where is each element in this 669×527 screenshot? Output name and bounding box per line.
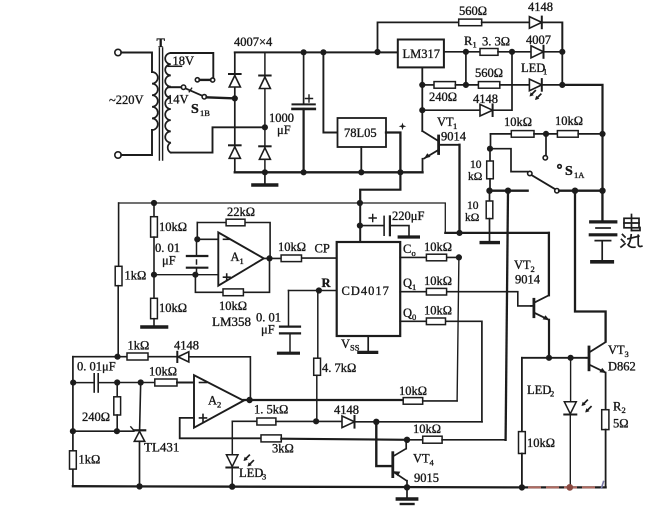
node — [137, 484, 142, 489]
ground Vss — [367, 336, 369, 351]
svg-text:T: T — [157, 36, 166, 50]
label S1A — [558, 165, 562, 169]
wire bridge left column — [234, 52, 236, 171]
star marker — [399, 123, 407, 131]
wire to A2 out — [189, 357, 251, 399]
LED3 — [231, 421, 233, 454]
svg-text:2: 2 — [550, 389, 554, 399]
svg-text:LED: LED — [521, 61, 545, 75]
wire 3k to VT4 node — [281, 439, 407, 440]
wire — [498, 51, 531, 53]
svg-text:Q: Q — [403, 306, 412, 320]
node — [230, 484, 235, 489]
wire — [121, 130, 152, 155]
resistor 1k — [127, 353, 148, 360]
wire — [482, 21, 530, 23]
node — [567, 485, 572, 490]
node — [560, 83, 565, 88]
node — [420, 108, 425, 113]
wire row1-row2 link — [465, 52, 467, 85]
wire corner left — [490, 134, 492, 149]
wire — [121, 53, 152, 73]
wire — [455, 84, 478, 86]
wire left low branch — [72, 357, 74, 487]
svg-text:560Ω: 560Ω — [475, 66, 503, 80]
svg-text:S: S — [565, 164, 573, 179]
wire far-left branch — [118, 203, 120, 266]
node VT4 collector — [405, 437, 410, 442]
node — [506, 188, 511, 193]
diode bridge D4 bottom-right — [259, 145, 270, 147]
transformer T primary winding — [152, 72, 158, 130]
wire 22k feedback loop — [197, 223, 270, 259]
svg-text:22kΩ: 22kΩ — [227, 205, 255, 219]
wire to S1A pivot — [491, 149, 528, 172]
svg-text:A: A — [231, 250, 240, 264]
svg-text:3: 3 — [625, 349, 629, 359]
node R — [317, 288, 322, 293]
resistor R2 5ohm — [602, 410, 609, 430]
svg-text:TL431: TL431 — [144, 440, 179, 455]
node A1 out — [267, 256, 272, 261]
wire VDD to CD4017 — [359, 203, 361, 242]
svg-text:1kΩ: 1kΩ — [125, 269, 147, 283]
svg-text:10: 10 — [467, 200, 479, 212]
wire 1.5k row — [232, 420, 257, 422]
svg-text:1kΩ: 1kΩ — [128, 339, 150, 353]
svg-text:D862: D862 — [608, 360, 636, 374]
wire — [500, 84, 530, 86]
svg-text:240Ω: 240Ω — [82, 410, 110, 424]
node — [560, 50, 565, 55]
svg-text:10kΩ: 10kΩ — [555, 114, 583, 128]
transistor VT3 — [588, 347, 591, 370]
node — [115, 429, 120, 434]
svg-text:R: R — [322, 276, 332, 290]
diode bridge D2 top-right — [259, 75, 270, 77]
node — [301, 50, 306, 55]
resistor 1k vertical left — [115, 266, 122, 285]
wire to 78L05 — [323, 52, 337, 132]
node — [71, 429, 76, 434]
wire VDD rail to VT2 — [445, 232, 549, 234]
node — [573, 188, 578, 193]
resistor 10k Co — [426, 254, 446, 261]
svg-text:2: 2 — [622, 405, 626, 415]
wire VT1 base down — [458, 145, 460, 233]
wire left divider — [153, 203, 155, 217]
diode 4007 — [531, 46, 544, 58]
resistor 22k — [226, 219, 245, 226]
wire 10k up to S1A row — [506, 191, 508, 440]
svg-text:C: C — [403, 242, 411, 256]
node Co — [457, 255, 462, 260]
svg-text:3. 3Ω: 3. 3Ω — [482, 35, 510, 49]
node — [510, 50, 515, 55]
op-amp A2 — [194, 375, 244, 428]
wire A1 plus row — [154, 274, 218, 276]
node — [457, 231, 462, 236]
wire — [534, 133, 557, 135]
transformer T secondary winding — [165, 53, 171, 153]
node A1 minus — [195, 237, 200, 242]
wire bottom power rail — [235, 171, 423, 173]
svg-text:Q: Q — [403, 276, 412, 290]
wire row 4148 adj — [422, 109, 480, 111]
node — [321, 50, 326, 55]
transformer T primary terminal top — [115, 49, 121, 55]
wire 1k 4148 row — [73, 356, 177, 358]
wire R row — [289, 290, 337, 292]
node — [359, 170, 364, 175]
diode 4148 A2 (points left) — [176, 352, 178, 362]
switch S1B pivot — [181, 85, 185, 89]
svg-text:3: 3 — [262, 472, 266, 482]
wire S1A upper contact — [545, 136, 547, 156]
ground VT4 — [406, 487, 408, 497]
diode 4148 top — [529, 17, 541, 29]
wire row2 — [422, 84, 434, 86]
svg-text:μF: μF — [261, 323, 275, 337]
svg-text:10kΩ: 10kΩ — [159, 220, 187, 234]
wire 14V tap — [168, 86, 181, 88]
svg-text:LED: LED — [527, 383, 551, 397]
svg-text:1B: 1B — [200, 108, 210, 118]
svg-text:VT: VT — [608, 343, 625, 357]
transformer core — [159, 48, 162, 160]
IC CD4017 — [337, 242, 401, 336]
svg-text:o: o — [412, 248, 416, 258]
svg-text:VT: VT — [413, 452, 430, 466]
wire Q0 row — [400, 321, 482, 422]
switch S1B contact — [202, 95, 206, 99]
resistor 10k vertical upper — [489, 149, 491, 161]
node bridge AC right — [263, 125, 268, 130]
svg-text:1A: 1A — [574, 170, 585, 180]
wire 78L05 output — [386, 133, 400, 173]
node — [314, 419, 319, 424]
node — [600, 132, 605, 137]
svg-text:S: S — [191, 102, 199, 117]
svg-text:10kΩ: 10kΩ — [159, 301, 187, 315]
wire VDD jog — [360, 172, 400, 203]
wire 14V to bridge — [207, 97, 235, 98]
wire 10k feedback loop — [195, 258, 269, 292]
wire 10k A2 minus row — [117, 382, 155, 384]
svg-text:9014: 9014 — [515, 273, 541, 287]
wire 78L05 gnd — [360, 147, 362, 172]
svg-text:9015: 9015 — [414, 471, 439, 485]
resistor 3k — [261, 435, 281, 442]
transformer T primary terminal bottom — [115, 152, 121, 158]
resistor 10k A2out — [403, 398, 423, 405]
svg-text:10kΩ: 10kΩ — [504, 115, 532, 129]
capacitor 0.01uF A1 — [196, 239, 198, 256]
capacitor 0.01uF R — [288, 291, 290, 327]
svg-text:kΩ: kΩ — [468, 171, 482, 183]
svg-text:220μF: 220μF — [392, 209, 424, 223]
node — [375, 50, 380, 55]
node VT4 base branch — [374, 419, 379, 424]
switch S1B 18V contact pair — [211, 78, 215, 82]
node — [115, 354, 120, 359]
node — [420, 83, 425, 88]
wire Q1 row — [400, 292, 531, 306]
resistor 10k — [557, 131, 578, 138]
node — [405, 485, 410, 490]
resistor 10k CP — [281, 255, 301, 262]
wire A1 minus — [197, 223, 218, 240]
svg-text:10kΩ: 10kΩ — [278, 240, 306, 254]
svg-text:V: V — [341, 337, 350, 351]
resistor 10k Q0 — [426, 318, 445, 325]
svg-text:14V: 14V — [167, 93, 189, 107]
resistor 560ohm top — [459, 19, 482, 26]
svg-text:4007×4: 4007×4 — [234, 35, 273, 49]
svg-text:10kΩ: 10kΩ — [527, 436, 555, 450]
svg-text:VT: VT — [514, 258, 531, 272]
svg-text:4148: 4148 — [334, 403, 359, 417]
svg-text:10kΩ: 10kΩ — [424, 274, 452, 288]
svg-text:10: 10 — [470, 159, 482, 171]
svg-text:4148: 4148 — [528, 0, 553, 14]
svg-text:10kΩ: 10kΩ — [219, 299, 247, 313]
node — [115, 380, 120, 385]
svg-text:VT: VT — [437, 115, 454, 129]
svg-text:μF: μF — [277, 123, 291, 137]
wire 240 bottom row — [73, 430, 134, 432]
diode bridge D3 bottom-left — [229, 144, 241, 146]
svg-text:1: 1 — [412, 282, 416, 292]
resistor 1.5k — [257, 418, 276, 425]
diode 4148 Q0 — [342, 416, 355, 428]
diode bridge D1 top-left — [229, 73, 241, 75]
wire top rail — [235, 51, 398, 53]
svg-text:10kΩ: 10kΩ — [149, 365, 177, 379]
svg-text:10kΩ: 10kΩ — [424, 240, 452, 254]
capacitor 1000uF — [303, 52, 305, 104]
wire S1A bottom row — [490, 189, 528, 191]
node — [193, 272, 198, 277]
wire LM317 output — [444, 51, 480, 53]
node — [71, 380, 76, 385]
LED1 — [529, 79, 541, 91]
resistor 10k VT4 — [423, 436, 442, 443]
LED2 — [570, 358, 572, 402]
svg-text:78L05: 78L05 — [344, 126, 377, 140]
ground — [481, 241, 498, 244]
svg-text:1. 5kΩ: 1. 5kΩ — [254, 403, 288, 417]
resistor 10k — [511, 131, 534, 138]
regulator 78L05 — [338, 118, 387, 147]
svg-text:CD4017: CD4017 — [342, 284, 390, 298]
wire Co row — [400, 256, 459, 258]
node — [152, 272, 157, 277]
transistor VT1 — [422, 131, 437, 141]
node — [568, 356, 573, 361]
capacitor 220uF — [360, 225, 383, 227]
resistor 1k vertical bottom — [70, 451, 77, 469]
wire secondary bottom — [171, 127, 262, 152]
ground bridge — [264, 172, 266, 183]
wire — [493, 52, 512, 110]
svg-text:kΩ: kΩ — [465, 212, 479, 224]
transistor VT4 — [376, 422, 391, 466]
node — [301, 170, 306, 175]
node — [488, 146, 493, 151]
resistor 10k A1 — [223, 289, 243, 296]
resistor R1 3.3ohm — [480, 49, 498, 56]
svg-text:4148: 4148 — [473, 92, 498, 106]
resistor 10k vertical lower — [489, 191, 491, 201]
wire VT3 base row — [522, 357, 587, 359]
wire bottom rail — [73, 486, 522, 487]
wire bridge right column — [264, 52, 266, 171]
node — [464, 50, 469, 55]
svg-text:10kΩ: 10kΩ — [424, 304, 452, 318]
resistor 10k Q1 — [426, 288, 446, 295]
switch S1A blade — [532, 175, 555, 189]
resistor 240ohm — [434, 82, 455, 89]
svg-text:10kΩ: 10kΩ — [399, 384, 427, 398]
svg-text:4148: 4148 — [174, 339, 199, 353]
wire A1 top rail — [119, 203, 446, 233]
svg-text:CP: CP — [315, 242, 330, 256]
svg-text:2: 2 — [217, 400, 221, 410]
svg-text:LM317: LM317 — [403, 47, 441, 61]
label battery chinese — [621, 215, 642, 248]
node — [138, 380, 143, 385]
diode 4148 adj — [480, 104, 493, 116]
svg-text:0: 0 — [412, 312, 416, 322]
svg-text:3kΩ: 3kΩ — [272, 442, 294, 456]
resistor 10k divider upper — [151, 217, 158, 237]
wire — [544, 51, 563, 53]
svg-text:4007: 4007 — [526, 33, 551, 47]
wire secondary 18V top — [171, 53, 214, 78]
svg-text:LED: LED — [239, 466, 263, 480]
svg-text:240Ω: 240Ω — [429, 90, 457, 104]
svg-text:1: 1 — [543, 67, 547, 77]
node — [464, 83, 469, 88]
wire — [542, 84, 563, 86]
resistor 240 vertical — [116, 383, 118, 397]
svg-text:9014: 9014 — [441, 130, 467, 144]
svg-text:μF: μF — [162, 254, 176, 268]
node — [487, 188, 492, 193]
svg-text:560Ω: 560Ω — [459, 4, 487, 18]
svg-text:0. 01μF: 0. 01μF — [77, 360, 116, 374]
node — [520, 485, 525, 490]
svg-text:1: 1 — [240, 256, 244, 266]
ground divider — [142, 325, 167, 329]
18V tap stub — [168, 65, 182, 67]
resistor 10k divider lower — [153, 275, 155, 299]
svg-text:~220V: ~220V — [109, 93, 144, 107]
regulator LM317 — [398, 40, 444, 68]
resistor 10k A2 — [155, 379, 177, 386]
wire A2 output row — [244, 399, 404, 401]
wire A1 out — [264, 257, 337, 259]
resistor 10k LED2 branch — [521, 358, 523, 432]
node — [600, 188, 605, 193]
svg-text:A: A — [208, 394, 217, 408]
node A2 out — [247, 398, 252, 403]
svg-text:1kΩ: 1kΩ — [79, 453, 101, 467]
node bridge AC left — [233, 96, 238, 101]
node — [263, 170, 268, 175]
wire A2 plus loop — [180, 418, 261, 438]
capacitor 0.01uF TL431 — [73, 382, 93, 384]
resistor 560ohm row2 — [478, 82, 499, 89]
wire branch 560 top — [378, 22, 459, 52]
node — [358, 201, 363, 206]
wire — [542, 22, 563, 51]
switch S1B blade — [186, 88, 203, 95]
wire LM317 adj — [421, 67, 423, 131]
battery — [601, 192, 603, 220]
wire VT3 collector feed — [575, 191, 606, 342]
svg-text:5Ω: 5Ω — [613, 417, 629, 431]
wire 10k row S1A top — [491, 133, 512, 135]
wire right column — [561, 22, 563, 85]
svg-text:18V: 18V — [173, 54, 195, 68]
node — [152, 201, 157, 206]
svg-text:1: 1 — [473, 40, 477, 50]
resistor 4.7k vertical — [317, 291, 319, 359]
node — [544, 132, 549, 137]
node — [547, 356, 552, 361]
op-amp A1 — [218, 232, 263, 285]
svg-text:LM358: LM358 — [212, 314, 251, 329]
node — [398, 170, 403, 175]
svg-text:10kΩ: 10kΩ — [413, 422, 441, 436]
TL431 — [140, 383, 141, 430]
wire Co node down — [457, 257, 459, 401]
ground 0.01uF — [279, 352, 299, 355]
wire — [578, 133, 602, 135]
transistor VT2 — [548, 233, 550, 295]
svg-text:4. 7kΩ: 4. 7kΩ — [322, 361, 356, 375]
node — [358, 223, 363, 228]
